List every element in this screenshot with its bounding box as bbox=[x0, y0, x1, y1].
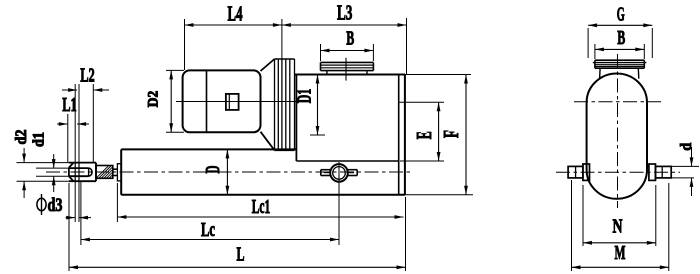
rod threaded section bbox=[96, 166, 113, 179]
centerline motor axis bbox=[176, 101, 297, 103]
centerline main axis bbox=[46, 171, 412, 173]
coupling ribbed section bbox=[275, 59, 295, 150]
dim phi d3 bbox=[37, 181, 91, 222]
cylinder tube bbox=[121, 149, 296, 194]
svg-text:G: G bbox=[617, 4, 625, 26]
centerline end view pins bbox=[556, 171, 680, 173]
dim D tube bbox=[202, 149, 229, 194]
right trunnion pin end view bbox=[649, 164, 671, 180]
svg-text:E: E bbox=[412, 131, 436, 139]
svg-text:D1: D1 bbox=[293, 89, 315, 104]
terminal box side bbox=[321, 62, 374, 74]
dim G bbox=[588, 4, 652, 59]
body stadium end view bbox=[587, 73, 647, 198]
terminal box end view bbox=[593, 60, 647, 68]
dim D1 bbox=[293, 75, 325, 136]
dim d1 bbox=[30, 132, 69, 192]
svg-text:d: d bbox=[678, 143, 695, 151]
svg-text:d1: d1 bbox=[30, 132, 47, 147]
svg-text:Lc1: Lc1 bbox=[252, 196, 271, 218]
centerline end view vertical bbox=[617, 54, 619, 208]
clevis rod end bbox=[69, 163, 96, 182]
svg-text:N: N bbox=[613, 216, 623, 238]
dim N bbox=[583, 185, 656, 246]
dim L4 bbox=[185, 2, 282, 71]
svg-text:M: M bbox=[615, 242, 626, 264]
dim L3 bbox=[282, 1, 407, 75]
dim d pin bbox=[671, 143, 699, 196]
dim D2 bbox=[146, 70, 185, 132]
centerline end view horizontal bbox=[574, 101, 661, 103]
svg-text:d3: d3 bbox=[48, 195, 63, 216]
dim d2 bbox=[13, 129, 69, 198]
svg-text:L1: L1 bbox=[62, 94, 77, 116]
clevis pin hole bbox=[75, 163, 79, 182]
motor body bbox=[183, 70, 261, 132]
dim L1 bbox=[57, 94, 89, 163]
dim M bbox=[572, 180, 669, 271]
dim Lc1 bbox=[117, 183, 403, 222]
svg-text:L4: L4 bbox=[228, 2, 243, 26]
svg-text:F: F bbox=[439, 130, 463, 138]
svg-text:L: L bbox=[237, 244, 245, 266]
dim L2 bbox=[62, 65, 109, 163]
svg-text:Lc: Lc bbox=[201, 219, 215, 241]
terminal box leader bbox=[345, 58, 347, 81]
motor key square bbox=[226, 94, 239, 110]
svg-text:d2: d2 bbox=[13, 129, 30, 144]
front gland bbox=[117, 164, 121, 181]
dim B end view bbox=[595, 27, 644, 59]
trunnion pin side bbox=[321, 162, 357, 187]
dim L bbox=[69, 183, 406, 271]
terminal box support bbox=[600, 68, 639, 78]
gear housing bbox=[121, 75, 473, 195]
svg-text:L3: L3 bbox=[337, 1, 353, 25]
svg-text:D2: D2 bbox=[146, 91, 162, 108]
dim Lc bbox=[81, 181, 339, 245]
motor cone adapter bbox=[261, 59, 275, 150]
dim F bbox=[439, 75, 468, 195]
left trunnion pin end view bbox=[568, 164, 589, 180]
svg-text:B: B bbox=[346, 28, 354, 50]
piston rod bbox=[113, 169, 118, 175]
svg-text:L2: L2 bbox=[80, 65, 95, 87]
svg-text:B: B bbox=[617, 27, 625, 49]
dim B side bbox=[321, 28, 374, 62]
svg-text:D: D bbox=[202, 166, 224, 174]
dim E bbox=[399, 102, 444, 161]
